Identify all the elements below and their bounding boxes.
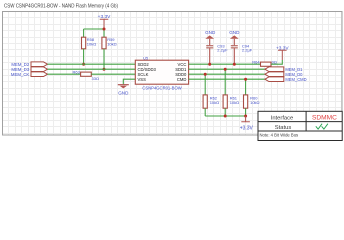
ground GND (left of IC) — [118, 85, 129, 96]
svg-text:+3.3V: +3.3V — [240, 125, 254, 131]
junction rail R60 — [244, 115, 247, 118]
svg-text:+3.3V: +3.3V — [276, 46, 289, 52]
svg-text:10kΩ: 10kΩ — [250, 100, 259, 105]
junction R59 on MEM_D3 — [103, 68, 106, 71]
wire VSS to ground — [123, 79, 135, 84]
svg-text:2.2µF: 2.2µF — [217, 48, 228, 53]
svg-text:CSW CSNP4GCR01-BOW - NAND Flas: CSW CSNP4GCR01-BOW - NAND Flash Memory (… — [4, 3, 118, 9]
resistor R58 — [82, 37, 86, 49]
wire SDD0 pull-up drop — [204, 74, 206, 95]
svg-text:33Ω: 33Ω — [92, 76, 99, 81]
svg-text:GND: GND — [205, 30, 216, 35]
svg-text:CSNP4GCR01-BOW: CSNP4GCR01-BOW — [142, 85, 181, 90]
junction R61 on SDD1 — [224, 68, 227, 71]
junction at +3.3V stem — [103, 28, 106, 31]
svg-text:Interface: Interface — [271, 115, 294, 121]
op-amp/IC U5 CSNP4GCR01-BOW — [135, 56, 188, 90]
svg-text:Note: 4 Bit Wide Bus: Note: 4 Bit Wide Bus — [260, 133, 299, 138]
resistor R62 — [203, 95, 207, 108]
port MEM_D1 — [265, 67, 284, 72]
power port +3.3V (top left) — [100, 19, 109, 29]
junction R62 on SDD0 — [204, 73, 207, 76]
port MEM_D0 — [265, 72, 284, 77]
junction C94 on VCC — [233, 63, 236, 66]
svg-text:10kΩ: 10kΩ — [230, 100, 239, 105]
svg-text:2.2µF: 2.2µF — [242, 48, 253, 53]
capacitor C93 — [206, 43, 228, 64]
svg-text:GND: GND — [118, 90, 129, 95]
ground GND (top, above C94) — [229, 30, 240, 45]
wire SDD1 net — [189, 68, 265, 70]
resistor R63 — [81, 72, 92, 76]
resistor R60 — [244, 95, 248, 108]
wire MEM_D2 — [48, 63, 136, 65]
wire +3.3V rail top-left — [84, 29, 104, 37]
resistor R59 — [102, 37, 106, 49]
wire CMD net — [189, 78, 265, 80]
junction rail R61 — [224, 115, 227, 118]
wire R58 to MEM_D2 net — [83, 49, 85, 64]
svg-text:+3.3V: +3.3V — [98, 14, 111, 20]
wire R64 to +3.3V — [271, 60, 282, 64]
svg-text:SDMMC: SDMMC — [312, 115, 337, 122]
svg-text:10kΩ: 10kΩ — [87, 41, 96, 46]
power port +3.3V (top right) — [278, 50, 287, 60]
wire R59 to MEM_D3 net — [103, 49, 105, 69]
svg-text:10kΩ: 10kΩ — [210, 100, 219, 105]
svg-text:MEM_CK: MEM_CK — [11, 72, 30, 77]
junction C93 on VCC — [208, 63, 211, 66]
junction R60 on CMD — [244, 78, 247, 81]
svg-text:MEM_CMD: MEM_CMD — [285, 77, 306, 82]
wire MEM_D3 — [48, 68, 136, 70]
svg-text:Status: Status — [275, 125, 292, 131]
wire CMD pull-up drop — [245, 79, 247, 95]
wire SDD0 net — [189, 73, 265, 75]
port MEM_CMD — [265, 77, 284, 82]
svg-text:CMD: CMD — [177, 77, 187, 82]
svg-text:R63: R63 — [72, 69, 80, 74]
wire pull-up rail — [205, 108, 245, 116]
wire VCC net — [189, 63, 261, 65]
capacitor C94 — [231, 43, 253, 64]
wire R63 to SCLK — [91, 73, 135, 75]
ground GND (top, above C93) — [205, 30, 216, 45]
info table — [258, 111, 342, 140]
junction R58 on MEM_D2 — [82, 63, 85, 66]
resistor R64 0R (series VCC) — [261, 62, 272, 66]
svg-text:10kΩ: 10kΩ — [107, 41, 116, 46]
power port +3.3V (bottom) — [241, 116, 250, 122]
wire SDD1 pull-up drop — [224, 69, 226, 95]
svg-text:GND: GND — [229, 30, 240, 35]
svg-text:R64: R64 — [252, 60, 260, 65]
wire MEM_CK to R63 — [48, 73, 81, 75]
resistor R61 — [223, 95, 227, 108]
svg-text:VSS: VSS — [138, 77, 147, 82]
svg-text:U5: U5 — [143, 56, 148, 60]
